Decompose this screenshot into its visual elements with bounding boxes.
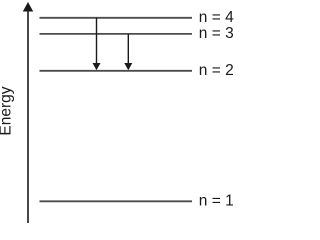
svg-text:n = 1: n = 1	[199, 193, 234, 210]
level n=3 line	[40, 33, 193, 35]
svg-text:n = 4: n = 4	[199, 9, 234, 26]
level n=1 line	[40, 200, 193, 202]
level n=2 line	[40, 70, 193, 72]
level n=4 line	[40, 17, 193, 19]
svg-text:n = 2: n = 2	[199, 62, 234, 79]
svg-text:Energy: Energy	[0, 86, 15, 135]
svg-text:n = 3: n = 3	[199, 25, 234, 42]
transition arrow n=4 to n=2	[93, 18, 101, 71]
transition arrow n=3 to n=2	[124, 34, 132, 70]
energy axis arrow	[23, 2, 33, 223]
